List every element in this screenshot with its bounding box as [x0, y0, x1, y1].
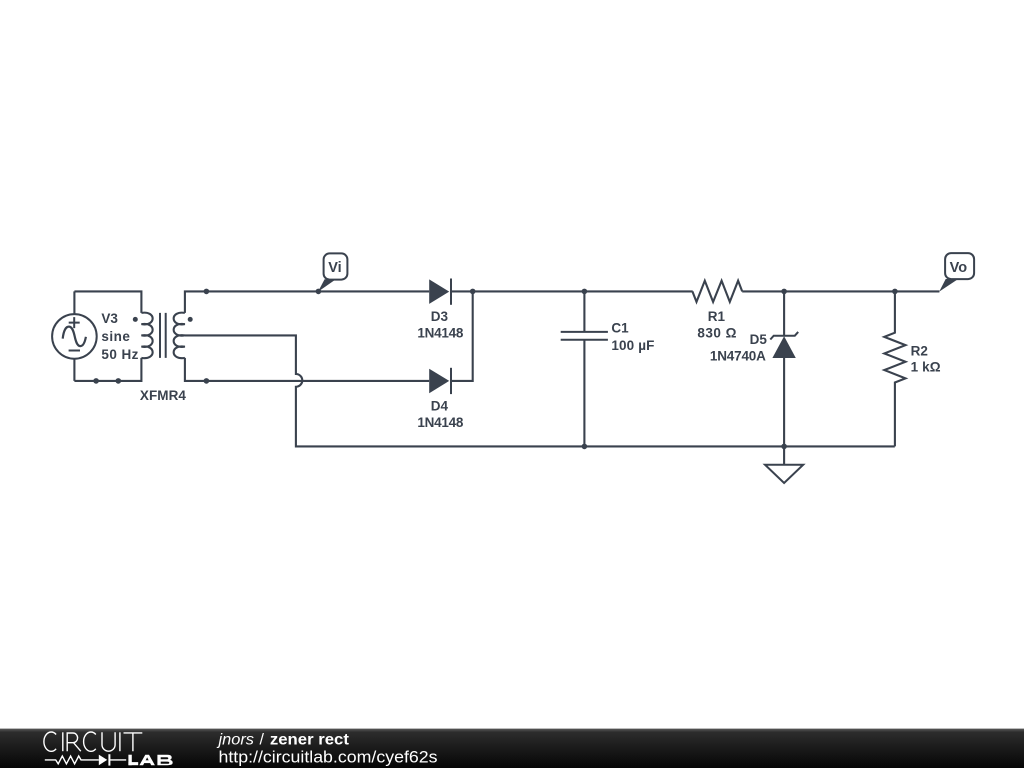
svg-text:50 Hz: 50 Hz	[101, 347, 138, 362]
CircuitLab logo	[44, 732, 173, 766]
resistor R1	[692, 281, 742, 302]
wire secondary top to D3 anode	[185, 291, 429, 313]
svg-text:1N4148: 1N4148	[417, 325, 463, 340]
svg-text:R2: R2	[911, 343, 928, 358]
svg-text:D4: D4	[431, 398, 449, 413]
svg-text:sine: sine	[101, 329, 130, 344]
junction dot C1 bottom	[582, 444, 588, 450]
diode D3	[429, 279, 451, 305]
footer title	[216, 732, 437, 767]
V3 labels	[101, 311, 138, 362]
resistor R2	[884, 291, 905, 446]
wire V3 top to primary	[74, 291, 141, 313]
svg-text:1N4740A: 1N4740A	[710, 348, 766, 363]
R1 labels	[697, 309, 736, 341]
wire D3/D4 cathodes junction	[451, 291, 472, 381]
junction dot secondary bottom pin	[204, 378, 210, 384]
svg-text:100 µF: 100 µF	[611, 338, 654, 353]
wire V3 bottom to primary	[74, 358, 141, 381]
svg-text:V3: V3	[101, 311, 118, 326]
D3 labels	[417, 309, 463, 341]
junction dot rectifier output node	[470, 289, 476, 295]
net flag Vo	[939, 253, 974, 292]
svg-text:C1: C1	[611, 320, 629, 335]
svg-text:http://circuitlab.com/cyef62s: http://circuitlab.com/cyef62s	[219, 748, 438, 766]
svg-text:Vi: Vi	[328, 260, 341, 276]
ground	[765, 446, 803, 483]
zener diode D5	[770, 291, 798, 446]
svg-text:R1: R1	[708, 309, 726, 324]
svg-text:/: /	[260, 732, 265, 749]
wire R1 to Vo	[742, 290, 939, 292]
junction dot D5 top	[781, 289, 787, 295]
svg-text:zener rect: zener rect	[270, 732, 350, 749]
junction dot C1 top	[582, 289, 588, 295]
C1 labels	[611, 320, 654, 353]
net flag Vi	[318, 253, 347, 291]
svg-text:1N4148: 1N4148	[417, 415, 463, 430]
junction dot Vi	[316, 289, 322, 295]
wire rail to R1	[473, 290, 693, 292]
svg-text:D3: D3	[431, 309, 449, 324]
wire secondary bottom to D4 anode	[185, 358, 429, 381]
svg-text:D5: D5	[750, 332, 768, 347]
wire center tap with hop to ground rail	[185, 335, 895, 446]
transformer XFMR4	[133, 313, 193, 359]
junction dot R2 top	[892, 289, 898, 295]
junction dot secondary top pin	[204, 289, 210, 295]
junction dot ground	[781, 444, 787, 450]
capacitor C1	[561, 291, 608, 446]
svg-text:XFMR4: XFMR4	[140, 388, 186, 403]
R2 labels	[911, 343, 941, 374]
svg-text:830 Ω: 830 Ω	[697, 325, 736, 340]
svg-text:Vo: Vo	[950, 260, 968, 276]
junction dot V3 bottom wire right	[116, 378, 122, 384]
D5 labels	[710, 332, 767, 364]
svg-text:jnors: jnors	[216, 732, 254, 749]
diode D4	[429, 368, 451, 394]
svg-text:1 kΩ: 1 kΩ	[911, 359, 941, 374]
D4 labels	[417, 398, 463, 430]
junction dot V3 bottom wire left	[93, 378, 99, 384]
voltage source V3	[52, 291, 97, 381]
